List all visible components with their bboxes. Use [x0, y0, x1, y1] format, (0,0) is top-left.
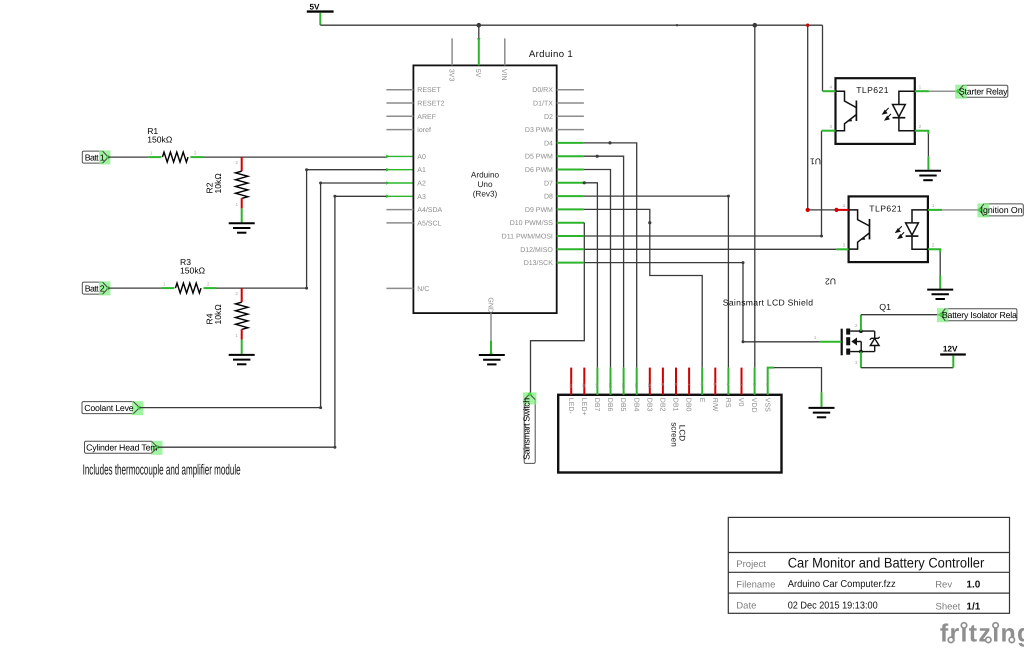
- pin leg ground VSS: [821, 392, 823, 407]
- svg-text:V0: V0: [737, 398, 744, 407]
- svg-text:3: 3: [830, 124, 833, 129]
- pin leg ioref: [386, 129, 413, 131]
- transistor Q1 MOSFET: [842, 302, 891, 355]
- svg-text:3: 3: [843, 243, 846, 248]
- svg-text:D11 PWM/MOSI: D11 PWM/MOSI: [502, 233, 553, 241]
- svg-text:DB0: DB0: [685, 398, 692, 412]
- svg-text:1: 1: [236, 202, 239, 207]
- svg-text:D6 PWM: D6 PWM: [525, 167, 553, 174]
- pin leg N/C: [386, 287, 413, 289]
- svg-text:D3 PWM: D3 PWM: [525, 127, 553, 134]
- svg-text:LED-: LED-: [567, 398, 574, 415]
- svg-text:Sainsmart Switch: Sainsmart Switch: [522, 398, 532, 460]
- power symbol 5V: [307, 3, 334, 26]
- svg-text:10kΩ: 10kΩ: [213, 304, 223, 325]
- svg-text:1: 1: [163, 282, 166, 287]
- svg-text:Uno: Uno: [477, 180, 492, 189]
- svg-text:VDD: VDD: [750, 398, 757, 413]
- title block frame: [728, 517, 1009, 613]
- wire 5V down to LCD VDD: [754, 25, 756, 367]
- wire D6 to LCD DB6: [584, 170, 611, 368]
- svg-text:12V: 12V: [943, 345, 958, 354]
- wire 5V down to U1 pin4: [822, 25, 824, 91]
- junction D7 bend: [583, 181, 586, 184]
- svg-text:D10 PWM/SS: D10 PWM/SS: [510, 219, 554, 227]
- svg-text:11: 11: [634, 383, 639, 388]
- wire D13 to Q1 gate: [584, 263, 820, 342]
- op-amp U2 optocoupler TLP621: [849, 196, 928, 262]
- svg-text:Sheet: Sheet: [936, 601, 961, 612]
- pin leg D0/RX: [557, 89, 584, 91]
- pin leg LCD LED- (red): [570, 368, 572, 395]
- wire R3 to bend: [217, 287, 307, 289]
- svg-text:3: 3: [855, 360, 858, 365]
- svg-text:U1: U1: [810, 157, 821, 167]
- svg-text:VSS: VSS: [763, 398, 770, 412]
- pin leg RESET2: [386, 102, 413, 104]
- svg-text:Cylinder Head Tem: Cylinder Head Tem: [86, 443, 158, 453]
- LCD pin numbers (rotated tiny): [569, 383, 771, 388]
- pin leg D2: [557, 115, 584, 117]
- LCD screen box: [558, 395, 781, 473]
- resistor R4 leg 2 (red): [241, 288, 243, 302]
- ground under U1: [915, 171, 941, 180]
- svg-text:13: 13: [608, 383, 613, 388]
- svg-text:1: 1: [919, 84, 922, 89]
- svg-text:D2: D2: [544, 114, 553, 121]
- pin leg LCD DB0 (red): [688, 368, 690, 395]
- wire D12 to U2 pin3: [584, 248, 836, 250]
- node Batt 1 label: [82, 150, 110, 164]
- svg-text:14: 14: [595, 383, 600, 388]
- Arduino top pin labels (rotated): [447, 69, 507, 82]
- node Battery Isolator Relay label: [937, 308, 1017, 322]
- pin leg D4: [557, 142, 584, 144]
- svg-text:Filename: Filename: [736, 580, 775, 591]
- Arduino right pin labels: [502, 86, 554, 267]
- svg-text:2: 2: [855, 323, 858, 328]
- svg-text:D9 PWM: D9 PWM: [525, 207, 553, 214]
- pin leg U2 pin1: [928, 209, 942, 211]
- svg-text:1/1: 1/1: [966, 601, 980, 612]
- wire Batt1 to R1: [108, 156, 148, 158]
- svg-text:screen: screen: [670, 422, 679, 447]
- node Cylinder Head Temp label: [85, 441, 163, 455]
- junction Cylinder bend top: [333, 195, 336, 198]
- svg-text:DB2: DB2: [659, 398, 666, 412]
- ground under U2: [927, 290, 953, 299]
- svg-text:2: 2: [194, 151, 197, 156]
- svg-text:D4: D4: [544, 140, 553, 147]
- svg-text:D13/SCK: D13/SCK: [524, 259, 554, 267]
- resistor R3 leg 2: [204, 287, 217, 289]
- wire 5V rail top: [320, 24, 822, 26]
- svg-text:Car Monitor and Battery Contro: Car Monitor and Battery Controller: [788, 555, 985, 571]
- svg-text:Ignition On: Ignition On: [981, 205, 1023, 215]
- pin leg LCD DB2 (red): [662, 368, 664, 395]
- junction 5V-U2 (red): [806, 24, 809, 27]
- ground under Arduino GND: [479, 355, 505, 364]
- title block text: [736, 555, 984, 613]
- pin leg U1 pin2: [915, 131, 929, 134]
- LCD pin labels (rotated): [567, 398, 771, 416]
- Arduino center label: [471, 170, 500, 198]
- pin leg LCD V0 (red): [741, 368, 743, 395]
- svg-text:2: 2: [236, 160, 239, 165]
- svg-text:Batt 1: Batt 1: [85, 152, 105, 162]
- node Ignition On label: [977, 203, 1023, 217]
- pin leg D8: [557, 195, 584, 197]
- pin leg U1 pin4: [823, 90, 836, 92]
- svg-text:2: 2: [919, 124, 922, 129]
- svg-text:2: 2: [207, 282, 210, 287]
- pin leg A3: [386, 195, 413, 197]
- svg-text:3V3: 3V3: [447, 69, 454, 82]
- resistor R3 leg 1: [161, 287, 174, 289]
- pin leg LCD DB3 (red): [649, 368, 651, 395]
- pin leg A4/SDA: [386, 209, 413, 211]
- svg-text:LED+: LED+: [580, 398, 587, 416]
- junction Cylinder bend: [333, 446, 336, 449]
- wire 5V junction to pin: [478, 25, 480, 38]
- node Coolant Level label: [82, 401, 143, 415]
- pin leg D5: [557, 155, 584, 157]
- pin leg D6: [557, 169, 584, 171]
- pin leg LCD DB5: [623, 368, 625, 395]
- wire U2 pin2 to ground: [939, 253, 941, 276]
- pin leg LCD DB1 (red): [675, 368, 677, 395]
- svg-text:Arduino Car Computer.fzz: Arduino Car Computer.fzz: [788, 579, 896, 590]
- svg-text:D8: D8: [544, 194, 553, 201]
- junction 5V-Arduino: [477, 23, 482, 28]
- pin leg A5/SCL: [386, 222, 413, 224]
- pin leg 3V3: [451, 38, 453, 65]
- pin leg D11: [557, 235, 585, 237]
- svg-text:150kΩ: 150kΩ: [180, 266, 206, 276]
- svg-text:1.0: 1.0: [966, 580, 980, 591]
- svg-text:Starter Relay: Starter Relay: [959, 87, 1008, 97]
- svg-text:A0: A0: [417, 154, 426, 161]
- svg-text:10: 10: [647, 383, 652, 388]
- svg-text:A5/SCL: A5/SCL: [417, 219, 441, 227]
- svg-text:Coolant Leve: Coolant Leve: [84, 403, 134, 413]
- junction D4 bend: [608, 141, 611, 144]
- pin leg A1: [386, 169, 413, 171]
- svg-text:1: 1: [932, 203, 935, 208]
- svg-text:15: 15: [582, 383, 587, 388]
- svg-text:RESET2: RESET2: [417, 101, 444, 108]
- wire 5V down to U2 pin4: [807, 25, 809, 210]
- svg-text:VIN: VIN: [500, 69, 507, 81]
- junction 5V-VDD: [753, 23, 758, 28]
- pin leg LCD DB7: [596, 368, 598, 395]
- pin leg LCD DB6: [610, 368, 612, 395]
- svg-text:12: 12: [621, 383, 626, 388]
- svg-text:ioref: ioref: [417, 126, 431, 134]
- fritzing logo: [940, 620, 1024, 648]
- resistor R1 leg 1: [148, 156, 161, 158]
- svg-text:DB7: DB7: [593, 398, 600, 412]
- wire Q1 source to 12V: [861, 367, 953, 369]
- node Starter Relay label: [955, 85, 1008, 99]
- resistor R4 zigzag: [236, 302, 248, 329]
- pin leg D7: [557, 182, 584, 184]
- pin leg LCD RS: [727, 368, 729, 395]
- svg-text:150kΩ: 150kΩ: [147, 135, 173, 145]
- ground below LCD VSS: [809, 408, 835, 417]
- svg-text:Rev: Rev: [935, 580, 952, 591]
- svg-text:RESET: RESET: [417, 87, 441, 94]
- pin leg U2 pin3: [836, 248, 848, 250]
- pin leg U1 pin1: [915, 90, 929, 92]
- pin leg D10: [557, 222, 585, 224]
- svg-text:D1/TX: D1/TX: [533, 100, 553, 108]
- junction Coolant bend top: [319, 182, 322, 185]
- wire Cylinder to A3: [158, 196, 387, 447]
- resistor R1 leg 2: [190, 156, 203, 158]
- pin leg LCD VSS: [768, 368, 774, 395]
- pin leg AREF: [386, 115, 413, 117]
- Arduino left pin labels: [417, 87, 444, 293]
- pin leg U1 pin3: [822, 130, 836, 132]
- pin leg D13: [557, 262, 585, 264]
- svg-text:R/W: R/W: [711, 398, 719, 412]
- svg-text:Sainsmart LCD Shield: Sainsmart LCD Shield: [723, 297, 814, 307]
- resistor R4 ground leg: [241, 340, 243, 354]
- svg-text:DB5: DB5: [619, 398, 626, 412]
- node Sainsmart Switch label (rotated): [522, 392, 537, 464]
- node Batt 2 label: [82, 281, 110, 295]
- wire R1 to A0: [204, 156, 387, 158]
- svg-text:D0/RX: D0/RX: [532, 86, 553, 94]
- svg-text:4: 4: [830, 84, 833, 89]
- wire U1 pin1 to Starter Relay: [929, 90, 958, 92]
- op-amp U1 optocoupler TLP621: [836, 78, 915, 144]
- svg-text:1: 1: [236, 333, 239, 338]
- svg-text:A4/SDA: A4/SDA: [417, 206, 442, 214]
- svg-text:2: 2: [236, 291, 239, 296]
- pin leg LCD R/W (red): [714, 368, 716, 395]
- pin leg D12: [557, 248, 585, 250]
- pin leg D9: [557, 208, 584, 210]
- wire U2 pin1 to Ignition On: [942, 209, 979, 211]
- svg-text:DB3: DB3: [645, 398, 652, 412]
- svg-text:10kΩ: 10kΩ: [213, 173, 223, 194]
- resistor R3 zigzag: [175, 283, 201, 293]
- svg-text:2: 2: [932, 243, 935, 248]
- junction Coolant bend: [319, 406, 322, 409]
- wire Coolant to A2: [140, 183, 387, 408]
- svg-text:A1: A1: [417, 167, 426, 174]
- power symbol 12V: [940, 345, 966, 368]
- pin leg U2 pin2: [928, 249, 940, 252]
- pin leg RESET: [386, 89, 413, 91]
- svg-text:02 Dec 2015 19:13:00: 02 Dec 2015 19:13:00: [788, 600, 878, 611]
- wire U1 pin2 to ground: [927, 134, 929, 156]
- junction Batt2 bends: [305, 168, 308, 171]
- resistor R2 zigzag: [236, 171, 248, 198]
- svg-text:Arduino 1: Arduino 1: [529, 49, 573, 60]
- svg-text:U2: U2: [825, 276, 836, 286]
- svg-text:1: 1: [150, 151, 153, 156]
- pin leg D1/TX: [557, 102, 584, 104]
- pin leg 5V (green): [478, 38, 480, 65]
- resistor R2 ground leg: [241, 208, 243, 222]
- wire bend up to A1 row: [307, 170, 387, 288]
- svg-text:Date: Date: [736, 600, 756, 611]
- wire 5V to U2 pin4: [808, 209, 836, 211]
- svg-text:DB1: DB1: [672, 398, 679, 412]
- junction D9 bend: [648, 221, 651, 224]
- LCD screen label (rotated): [670, 422, 687, 447]
- svg-text:A2: A2: [417, 181, 426, 188]
- pin leg Q1 drain: [860, 315, 862, 331]
- svg-text:TLP621: TLP621: [869, 203, 902, 213]
- pin leg Q1 source: [860, 352, 862, 368]
- Arduino U board box: [413, 65, 556, 313]
- pin leg LCD DB4: [636, 368, 638, 395]
- pin leg A0: [386, 155, 413, 157]
- svg-text:Q1: Q1: [879, 302, 891, 312]
- svg-text:(Rev3): (Rev3): [473, 189, 498, 198]
- pin leg LCD LED+ (red): [583, 368, 585, 395]
- wire D7 to LCD DB7: [584, 183, 598, 368]
- svg-text:Batt 2: Batt 2: [85, 283, 105, 293]
- junction D5 bend: [596, 155, 599, 158]
- svg-text:Project: Project: [736, 559, 766, 570]
- svg-text:Arduino: Arduino: [471, 170, 500, 179]
- svg-text:N/C: N/C: [417, 285, 429, 293]
- ground under R4: [229, 355, 255, 364]
- wire D5 to LCD DB5: [584, 156, 624, 367]
- svg-text:RS: RS: [724, 398, 731, 408]
- pin leg D3: [557, 129, 584, 131]
- svg-text:5V: 5V: [474, 69, 481, 78]
- wire Q1 drain to Battery Isolator Relay: [861, 314, 941, 316]
- junction rail bendpoint: [676, 24, 678, 26]
- pin leg A2: [386, 182, 413, 184]
- svg-text:D7: D7: [544, 180, 553, 187]
- resistor R2 leg 1 (red): [241, 198, 243, 208]
- pin leg ground U2: [939, 276, 941, 289]
- resistor R4 leg 1 (red): [241, 329, 243, 339]
- svg-text:GND: GND: [486, 297, 493, 313]
- svg-text:1: 1: [814, 335, 817, 340]
- pin leg GND green: [490, 341, 492, 354]
- svg-text:Battery Isolator Rela: Battery Isolator Rela: [942, 310, 1017, 320]
- wire D9 to LCD E: [584, 209, 702, 367]
- svg-text:AREF: AREF: [417, 114, 436, 121]
- svg-text:A3: A3: [417, 194, 426, 201]
- svg-text:TLP621: TLP621: [856, 85, 889, 95]
- junction U2 pin4 (red dots): [806, 208, 810, 212]
- pin leg LCD VDD: [754, 368, 756, 395]
- svg-text:E: E: [698, 398, 705, 403]
- svg-text:4: 4: [843, 203, 846, 208]
- pin leg U2 pin4 (red): [836, 209, 849, 211]
- pin leg ground U1: [927, 156, 929, 169]
- pin leg GND gray: [490, 313, 492, 341]
- resistor R2 leg 2 (red): [241, 157, 243, 171]
- svg-text:DB4: DB4: [632, 398, 639, 412]
- pin leg VIN: [504, 38, 506, 65]
- svg-text:16: 16: [569, 383, 574, 388]
- svg-text:5V: 5V: [310, 3, 321, 12]
- wire D8 to LCD RS: [584, 196, 729, 368]
- svg-text:D5 PWM: D5 PWM: [525, 154, 553, 161]
- resistor R1 zigzag: [162, 152, 188, 162]
- pin leg LCD E: [701, 368, 703, 395]
- wire D4 to LCD DB4: [584, 143, 637, 368]
- svg-text:Includes thermocouple and ampl: Includes thermocouple and amplifier modu…: [83, 462, 241, 478]
- ground under R2: [229, 223, 255, 232]
- pin arrows A0-A3: [386, 38, 493, 354]
- svg-text:D12/MISO: D12/MISO: [520, 246, 553, 254]
- pin leg Q1 gate: [820, 341, 842, 343]
- wire VSS to ground: [774, 368, 822, 393]
- wire D10 to Sainsmart Switch: [531, 223, 585, 394]
- svg-text:DB6: DB6: [606, 398, 613, 412]
- wire Batt2 to R3: [108, 287, 161, 289]
- wire D11 to U1 pin3: [584, 131, 821, 236]
